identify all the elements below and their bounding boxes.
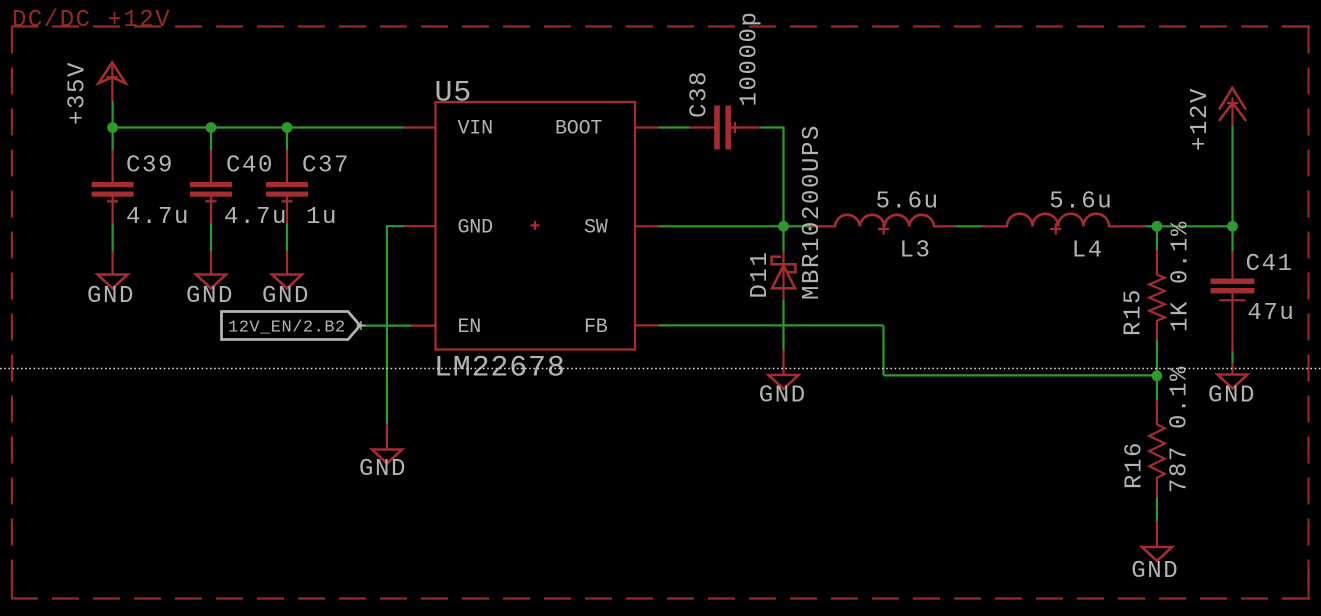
pin SW 5 bbox=[635, 225, 659, 227]
svg-text:L4: L4 bbox=[1072, 238, 1104, 265]
svg-text:4.7u: 4.7u bbox=[224, 204, 288, 231]
resistor R15 bbox=[1149, 250, 1165, 340]
wire C40 top drop bbox=[210, 128, 212, 153]
junction node FB divider bbox=[1152, 370, 1163, 381]
svg-text:EN: EN bbox=[458, 316, 482, 339]
wire L3 to L4 bbox=[955, 225, 985, 227]
wire C41 top bbox=[1231, 226, 1233, 253]
svg-text:GND: GND bbox=[359, 456, 407, 483]
ground symbol below R16 bbox=[1142, 521, 1172, 561]
wire R15 bottom to FB node bbox=[1156, 338, 1158, 376]
svg-text:5.6u: 5.6u bbox=[1049, 189, 1113, 216]
sheet border top dashed line bbox=[11, 25, 1310, 27]
wire L4 to output node bbox=[1144, 225, 1233, 227]
inductor L4 bbox=[982, 214, 1146, 235]
wire R16 bottom to GND bbox=[1156, 497, 1158, 524]
wire FB net vertical drop bbox=[882, 325, 884, 375]
capacitor C39 bbox=[92, 150, 134, 224]
junction node at C37 bbox=[282, 122, 293, 133]
svg-text:10000p: 10000p bbox=[737, 10, 764, 106]
svg-text:GND: GND bbox=[262, 283, 310, 310]
inductor L3 bbox=[811, 215, 956, 235]
svg-text:+35V: +35V bbox=[65, 61, 92, 125]
svg-text:R15: R15 bbox=[1121, 288, 1148, 336]
U5 origin cross bbox=[531, 221, 540, 230]
svg-text:12V_EN/2.B2: 12V_EN/2.B2 bbox=[228, 319, 346, 338]
capacitor C40 bbox=[190, 150, 232, 224]
wire C40 bottom to GND bbox=[210, 221, 212, 253]
pin FB 6 bbox=[635, 324, 659, 326]
sheet border left dashed line bbox=[11, 27, 13, 599]
sheet border bottom dashed line bbox=[11, 597, 1310, 599]
wire +12V stem net bbox=[1231, 126, 1233, 227]
sheet row divider dotted line bbox=[0, 368, 1321, 370]
svg-text:D11: D11 bbox=[747, 250, 774, 298]
svg-text:1K 0.1%: 1K 0.1% bbox=[1168, 220, 1195, 332]
svg-text:C37: C37 bbox=[302, 153, 350, 180]
power symbol +12V double chevron bbox=[1219, 88, 1246, 126]
sheet border right dashed line bbox=[1307, 27, 1309, 599]
junction node at C40 bbox=[206, 122, 217, 133]
svg-text:47u: 47u bbox=[1247, 300, 1295, 327]
wire FB net horizontal from pin bbox=[659, 324, 884, 326]
junction node +12V/C41 bbox=[1227, 221, 1238, 232]
svg-text:C38: C38 bbox=[687, 70, 714, 118]
pin EN 3 bbox=[411, 325, 436, 327]
junction node at +35V/C39 bbox=[107, 122, 118, 133]
pin BOOT 4 bbox=[635, 126, 659, 128]
power symbol +35V arrow bbox=[99, 63, 126, 102]
svg-text:U5: U5 bbox=[435, 77, 473, 111]
resistor R16 bbox=[1149, 400, 1165, 498]
wire D11 bottom to GND bbox=[782, 299, 784, 352]
diode D11 MBR10200UPS bbox=[772, 251, 796, 300]
svg-text:C40: C40 bbox=[226, 153, 274, 180]
wire R16 top bbox=[1156, 376, 1158, 402]
wire FB net to divider node bbox=[884, 374, 1157, 376]
svg-text:L3: L3 bbox=[900, 238, 932, 265]
ground symbol below C39 bbox=[98, 251, 128, 289]
capacitor C37 bbox=[266, 150, 308, 224]
junction node SW/D11 bbox=[778, 221, 789, 232]
wire EN net from flag bbox=[361, 325, 412, 327]
svg-text:DC/DC +12V: DC/DC +12V bbox=[12, 7, 171, 34]
svg-text:GND: GND bbox=[458, 217, 493, 240]
pin VIN 1 bbox=[404, 126, 436, 128]
svg-text:R16: R16 bbox=[1122, 441, 1149, 489]
wire +35V stem net bbox=[111, 101, 113, 128]
svg-text:GND: GND bbox=[759, 383, 807, 410]
svg-text:GND: GND bbox=[1131, 558, 1179, 585]
op-amp/regulator U5 body bbox=[436, 102, 636, 350]
wire D11 top bbox=[782, 226, 784, 253]
wire SW net to L3 bbox=[659, 225, 814, 227]
wire C39 top drop bbox=[111, 128, 113, 153]
svg-text:MBR10200UPS: MBR10200UPS bbox=[799, 124, 826, 300]
svg-text:C39: C39 bbox=[126, 153, 174, 180]
sheet border corner joints bbox=[11, 572, 13, 599]
svg-text:BOOT: BOOT bbox=[555, 118, 602, 141]
wire C38 to SW corner bbox=[759, 128, 784, 227]
svg-text:1u: 1u bbox=[306, 204, 338, 231]
wire C41 bottom to GND bbox=[1231, 350, 1233, 365]
svg-text:4.7u: 4.7u bbox=[126, 204, 190, 231]
ground symbol below U5 bbox=[372, 424, 402, 464]
svg-text:5.6u: 5.6u bbox=[876, 189, 940, 216]
wire C37 top drop bbox=[286, 128, 288, 153]
net flag 12V_EN/2.B2 bbox=[222, 312, 366, 340]
svg-text:C41: C41 bbox=[1246, 251, 1294, 278]
svg-text:GND: GND bbox=[1208, 383, 1256, 410]
wire C39 bottom to GND bbox=[111, 221, 113, 253]
capacitor C38 bbox=[689, 106, 761, 150]
ground symbol below C40 bbox=[196, 251, 226, 289]
ground symbol below C37 bbox=[272, 251, 302, 289]
svg-text:GND: GND bbox=[87, 283, 135, 310]
svg-text:SW: SW bbox=[584, 217, 608, 240]
ground symbol below C41 bbox=[1218, 363, 1248, 389]
wire R15 top bbox=[1156, 226, 1158, 252]
svg-text:VIN: VIN bbox=[458, 118, 493, 141]
svg-text:GND: GND bbox=[186, 283, 234, 310]
wire BOOT to C38 bbox=[659, 126, 692, 128]
wire U5 GND pin to ground bbox=[387, 226, 404, 425]
svg-text:FB: FB bbox=[584, 316, 608, 339]
pin GND 2 bbox=[404, 225, 436, 227]
wire C37 bottom to GND bbox=[286, 221, 288, 253]
svg-text:+12V: +12V bbox=[1187, 87, 1214, 151]
svg-text:787 0.1%: 787 0.1% bbox=[1167, 365, 1194, 493]
junction node L4/R15 bbox=[1152, 221, 1163, 232]
ground symbol below D11 bbox=[769, 350, 799, 389]
capacitor C41 bbox=[1211, 251, 1255, 352]
wire input bus VIN bbox=[113, 126, 407, 128]
